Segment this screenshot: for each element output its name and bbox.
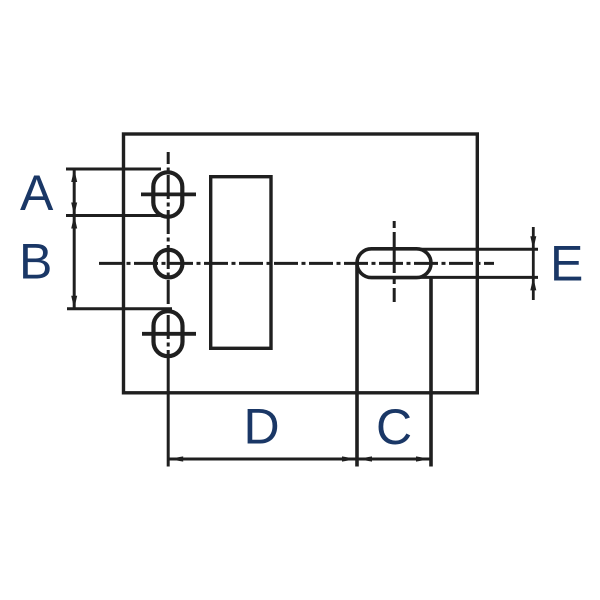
dimension E extension line top (slot top edge extended) — [420, 248, 538, 251]
arrow C right — [416, 456, 431, 461]
arrow A down — [71, 203, 77, 216]
hole 1 (top oval slot) — [153, 172, 182, 217]
slot vertical centerline — [393, 221, 396, 302]
svg-text:D: D — [244, 399, 280, 455]
slot (right rounded slot) — [357, 249, 431, 278]
arrow A up — [71, 169, 77, 182]
arrow C left — [357, 456, 372, 461]
dimension B extension line bottom — [67, 307, 172, 310]
vertical centerline through holes — [167, 152, 170, 357]
arrow D left — [168, 456, 183, 461]
dimension E line — [532, 227, 535, 300]
hole 1 horizontal crosshair — [141, 192, 196, 196]
arrow E top (pointing down) — [530, 236, 536, 249]
dimension D/C line — [168, 458, 431, 461]
dimension D extension line (hole centerline) — [167, 357, 170, 467]
dimension A/B shared extension line — [66, 214, 160, 217]
horizontal centerline through hole 2 and slot — [99, 262, 494, 265]
dimension A extension line top — [66, 168, 161, 171]
arrow B up — [71, 216, 77, 229]
svg-text:B: B — [19, 234, 52, 290]
dimension C extension line left (slot left edge) — [355, 265, 359, 467]
dimension C extension line right (slot right edge) — [429, 278, 433, 467]
svg-text:A: A — [20, 165, 54, 221]
dimension A/B line — [73, 169, 76, 309]
arrow E bottom (pointing up) — [530, 277, 536, 290]
connector body rectangle — [211, 177, 271, 349]
svg-text:E: E — [550, 236, 583, 292]
hole 3 horizontal crosshair — [142, 332, 196, 336]
dimension E extension line bottom (slot bottom edge extended) — [420, 276, 538, 279]
hole 3 (bottom oval slot) — [154, 311, 183, 356]
svg-text:C: C — [376, 399, 412, 455]
arrow D right — [342, 456, 357, 461]
hole 2 (middle round hole) — [155, 250, 183, 278]
arrow B down — [71, 296, 77, 309]
bracket outline — [124, 134, 478, 393]
